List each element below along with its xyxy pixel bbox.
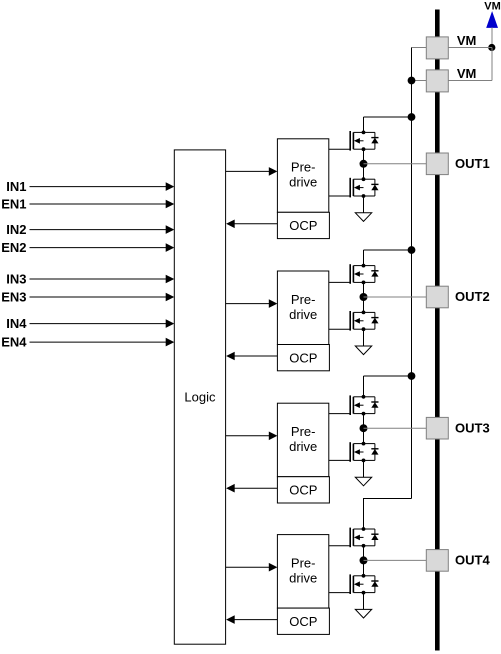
wire gate low-side 3 [329,459,350,461]
svg-text:Pre-: Pre- [291,160,316,175]
svg-text:OCP: OCP [289,218,317,233]
wire OCP 3 to Logic [226,484,277,493]
node OUT4 (junction) [360,556,368,564]
svg-text:OUT2: OUT2 [455,289,490,304]
OCP block 3 [277,477,329,503]
pin OUT3 (square) [426,417,448,439]
pin OUT2 (square) [426,286,448,308]
wire VM feed bridge 4 [364,499,412,530]
wire IN1 to Logic [30,182,175,191]
svg-text:IN1: IN1 [6,179,26,194]
wire EN3 to Logic [30,293,175,302]
wire EN2 to Logic [30,243,175,252]
wire VM pin2 left [412,80,427,82]
svg-text:VM: VM [457,66,477,81]
wire VM pin1 left [412,47,427,49]
wire half-bridge 1 centre [363,149,365,179]
ground symbol 3 [355,477,371,486]
pin label OUT3 [455,420,490,435]
svg-text:OCP: OCP [289,350,317,365]
wire gate low-side 2 [329,328,350,330]
svg-text:EN3: EN3 [1,290,26,305]
OCP block 4 [277,608,329,634]
input label IN1 [6,179,26,194]
svg-text:IN3: IN3 [6,272,26,287]
wire from VM arrow down [491,27,493,47]
svg-text:OUT4: OUT4 [455,553,490,568]
node: VM junction [488,44,495,51]
ground symbol 2 [355,346,371,355]
input label EN1 [1,197,26,212]
svg-text:EN1: EN1 [1,197,26,212]
wire half-bridge 2 centre [363,282,365,312]
junction VM line bridge 2 [408,246,416,254]
node OUT1 (junction) [360,160,368,168]
net label VM (supply) [484,0,501,12]
wire Logic to Pre-drive 2 [226,299,278,308]
wire IN3 to Logic [30,275,175,284]
pin OUT1 (square) [426,153,448,175]
transistor low-side Q6 [350,442,378,463]
wire half-bridge 4 centre [363,546,365,576]
svg-text:OUT3: OUT3 [455,420,490,435]
input label IN3 [6,272,26,287]
svg-text:Pre-: Pre- [291,292,316,307]
svg-text:EN2: EN2 [1,240,26,255]
svg-text:drive: drive [289,439,317,454]
wire VM feed bridge 2 [364,250,412,266]
input label IN2 [6,222,26,237]
svg-text:EN4: EN4 [1,335,27,350]
wire EN4 to Logic [30,338,175,347]
junction on VM line at pin2 [408,77,416,85]
wire gate high-side 1 [329,148,350,150]
wire gate high-side 3 [329,413,350,415]
wire source to ground 4 [363,593,365,610]
svg-text:OCP: OCP [289,614,317,629]
wire OUT1 to pin [364,163,427,165]
wire IN2 to Logic [30,225,175,234]
node OUT3 (junction) [360,424,368,432]
wire OCP 1 to Logic [226,220,277,229]
junction VM line bridge 3 [408,372,416,380]
wire VM pin1 to junction [448,47,492,49]
svg-text:Logic: Logic [184,390,216,405]
pre-drive block 1 [277,139,328,213]
wire Logic to Pre-drive 3 [226,432,278,441]
wire OUT3 to pin [364,427,427,429]
svg-text:OUT1: OUT1 [455,156,490,171]
wire: VM power rail (thick vertical) [435,10,440,651]
wire EN1 to Logic [30,200,175,209]
wire source to ground 1 [363,196,365,213]
wire gate high-side 2 [329,281,350,283]
transistor low-side Q8 [350,574,378,595]
transistor low-side Q4 [350,311,378,332]
transistor high-side Q3 [350,264,378,285]
pin label OUT4 [455,553,490,568]
pin label OUT2 [455,289,490,304]
logic block U1 [174,150,225,644]
pin VM (upper square) [426,37,448,59]
wire Logic to Pre-drive 1 [226,167,278,176]
input label EN2 [1,240,26,255]
svg-text:IN2: IN2 [6,222,26,237]
svg-text:Pre-: Pre- [291,555,316,570]
svg-text:Pre-: Pre- [291,424,316,439]
transistor high-side Q7 [350,527,378,548]
svg-text:VM: VM [457,33,477,48]
svg-text:drive: drive [289,175,317,190]
svg-text:drive: drive [289,307,317,322]
wire Logic to Pre-drive 4 [226,563,278,572]
input label IN4 [6,316,27,331]
transistor high-side Q5 [350,395,378,416]
wire VM feed bridge 1 [364,117,412,132]
OCP block 2 [277,345,329,371]
pin OUT4 (square) [426,550,448,572]
wire source to ground 3 [363,460,365,477]
input label EN4 [1,335,27,350]
svg-text:VM: VM [484,0,501,12]
svg-text:IN4: IN4 [6,316,27,331]
OCP block 1 [277,212,329,238]
wire IN4 to Logic [30,319,175,328]
wire gate low-side 1 [329,195,350,197]
pre-drive block 3 [277,403,328,477]
input label EN3 [1,290,26,305]
wire gate high-side 4 [329,545,350,547]
wire VM feed bridge 3 [364,376,412,397]
wire VM pin2 right and up [448,80,492,82]
node OUT2 (junction) [360,293,368,301]
junction VM line bridge 1 [408,113,416,121]
pin label VM (lower) [457,66,477,81]
pin VM (lower square) [426,70,448,92]
svg-text:drive: drive [289,570,317,585]
ground symbol 4 [355,609,371,618]
pre-drive block 4 [277,535,328,609]
wire: internal VM distribution (vertical) [411,48,413,499]
wire OCP 4 to Logic [226,615,277,624]
ground symbol 1 [355,213,371,222]
wire source to ground 2 [363,329,365,346]
wire half-bridge 3 centre [363,414,365,444]
transistor high-side Q1 [350,131,378,152]
wire OUT4 to pin [364,559,427,561]
wire OUT2 to pin [364,296,427,298]
wire OCP 2 to Logic [226,352,277,361]
pin label OUT1 [455,156,490,171]
svg-text:OCP: OCP [289,483,317,498]
transistor low-side Q2 [350,177,378,198]
pre-drive block 2 [277,271,328,345]
wire gate low-side 4 [329,592,350,594]
pin label VM (upper) [457,33,477,48]
wire VM junction down [491,48,493,81]
VM supply arrow (blue triangle) [487,13,497,28]
